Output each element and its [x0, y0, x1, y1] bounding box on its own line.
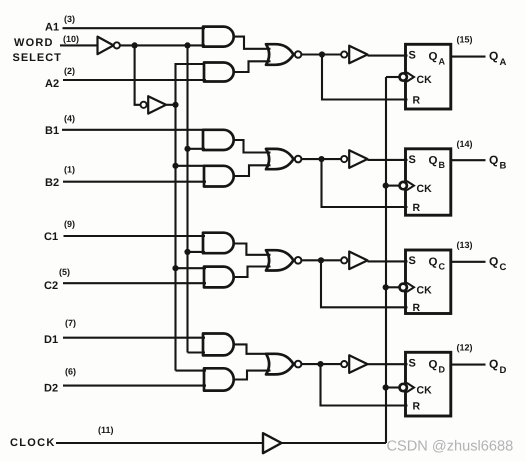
- wire WS-bar rail (vertical): [186, 45, 188, 352]
- clock bubble of FF D: [400, 384, 407, 391]
- svg-text:Q: Q: [489, 357, 498, 371]
- svg-text:Q: Q: [489, 153, 498, 167]
- wire D1 input: [63, 337, 205, 339]
- junction node WS rail: [172, 102, 178, 108]
- wire WORD SELECT input: [60, 44, 98, 46]
- svg-text:(11): (11): [98, 425, 114, 435]
- svg-text:C1: C1: [44, 231, 58, 243]
- svg-text:(10): (10): [63, 34, 79, 44]
- svg-text:Q: Q: [429, 256, 438, 268]
- svg-text:(7): (7): [65, 318, 76, 328]
- svg-text:Q: Q: [489, 254, 498, 268]
- svg-text:R: R: [413, 202, 421, 214]
- svg-text:CK: CK: [417, 183, 433, 195]
- wire B1 input: [62, 129, 205, 131]
- svg-text:D1: D1: [44, 334, 58, 346]
- wire feedback NOR B to R input: [322, 159, 408, 207]
- AND gate A1: [203, 27, 234, 47]
- inverter UB (set input): [341, 156, 347, 162]
- NOR gate C: [266, 250, 294, 270]
- wire QB output: [451, 159, 486, 161]
- NOR gate A: [266, 44, 294, 65]
- wire NOR A output: [301, 53, 341, 55]
- svg-text:(1): (1): [64, 165, 75, 175]
- svg-text:(2): (2): [64, 66, 75, 76]
- wire inverter U2 output: [166, 104, 176, 106]
- clock wedge of FF A: [407, 72, 414, 81]
- clock wedge of FF C: [407, 283, 414, 292]
- svg-text:A: A: [439, 56, 446, 66]
- svg-text:C: C: [500, 262, 507, 273]
- wire WS-bar feed to AND B1: [188, 148, 206, 150]
- wire AND C1 output to NOR C: [233, 244, 270, 255]
- svg-text:CK: CK: [417, 385, 433, 397]
- clock wedge of FF D: [407, 383, 414, 392]
- AND gate B2: [204, 166, 234, 187]
- junction node clock rail at FF D: [383, 384, 389, 390]
- clock wedge of FF B: [407, 181, 414, 190]
- svg-text:A1: A1: [45, 22, 59, 34]
- wire AND D2 output to NOR D: [234, 371, 270, 380]
- inverter UD (set input): [341, 361, 347, 367]
- junction node A (NOR output): [319, 51, 325, 57]
- wire QA output: [451, 56, 486, 58]
- inverter U1 (word select): [98, 37, 114, 55]
- wire clock feed to FF D: [386, 386, 400, 388]
- svg-text:S: S: [409, 255, 416, 267]
- junction node WS-bar to AND B1: [184, 146, 190, 152]
- svg-text:S: S: [409, 50, 416, 62]
- junction node WS to AND C2: [172, 265, 178, 271]
- svg-text:C2: C2: [44, 280, 58, 292]
- NOR gate B: [266, 149, 294, 169]
- clock buffer U3: [263, 433, 282, 453]
- svg-text:(4): (4): [64, 114, 75, 124]
- svg-text:C: C: [439, 262, 446, 272]
- wire clock buffer output: [282, 442, 387, 444]
- wire B2 input: [63, 181, 206, 183]
- wire clock feed to FF C: [386, 286, 400, 288]
- flip-flop latch B: [406, 149, 451, 215]
- svg-text:CK: CK: [417, 285, 433, 297]
- AND gate C2: [204, 267, 234, 288]
- svg-text:(12): (12): [457, 343, 473, 353]
- wire A2 input: [63, 79, 206, 81]
- NOR D output bubble: [295, 361, 302, 368]
- junction node D (NOR output): [317, 361, 323, 367]
- svg-text:D: D: [500, 365, 507, 376]
- wire C1 input: [64, 235, 206, 237]
- svg-text:Q: Q: [489, 49, 498, 63]
- clock bubble of FF A: [400, 73, 407, 80]
- svg-text:B: B: [500, 160, 507, 171]
- svg-text:S: S: [409, 154, 416, 166]
- svg-text:S: S: [409, 358, 416, 370]
- svg-text:Q: Q: [429, 51, 438, 63]
- clock bubble of FF B: [400, 182, 407, 189]
- wire inverter to S input of FF C: [368, 260, 408, 262]
- wire NOR B output: [301, 158, 341, 160]
- wire WS feed to AND B2: [176, 165, 207, 167]
- svg-text:CSDN @zhusl6688: CSDN @zhusl6688: [387, 439, 514, 455]
- junction node B (NOR output): [318, 156, 324, 162]
- AND gate C1: [203, 233, 234, 254]
- svg-text:R: R: [413, 400, 421, 412]
- svg-text:(5): (5): [59, 267, 70, 277]
- AND gate D2: [204, 368, 234, 390]
- wire feedback NOR C to R input: [321, 260, 408, 307]
- NOR A output bubble: [295, 51, 302, 58]
- wire WS rail corner to AND D2: [176, 370, 207, 372]
- NOR C output bubble: [295, 257, 302, 264]
- flip-flop latch D: [406, 352, 451, 416]
- svg-text:R: R: [413, 302, 421, 314]
- svg-text:CLOCK: CLOCK: [10, 437, 56, 449]
- wire feedback NOR D to R input: [321, 364, 408, 405]
- NOR B output bubble: [295, 156, 302, 163]
- svg-text:(3): (3): [64, 14, 75, 24]
- inverter UA (set input): [341, 51, 347, 57]
- svg-text:Q: Q: [429, 359, 438, 371]
- wire inverter to S input of FF D: [368, 363, 408, 365]
- junction node WS-bar branch 1: [132, 42, 138, 48]
- AND gate D1: [203, 334, 234, 356]
- svg-text:A: A: [500, 57, 507, 68]
- svg-text:CK: CK: [417, 74, 433, 86]
- svg-text:A2: A2: [45, 78, 59, 90]
- svg-text:WORD: WORD: [14, 37, 54, 49]
- wire AND B2 output to NOR B: [234, 165, 270, 176]
- wire clock feed to FF A: [386, 76, 400, 78]
- wire NOR D output: [301, 363, 341, 365]
- wire AND A1 output to NOR A: [233, 37, 270, 49]
- wire AND A2 output to NOR A: [234, 61, 270, 72]
- svg-text:(13): (13): [457, 240, 473, 250]
- svg-text:D: D: [439, 364, 446, 374]
- wire D2 input: [63, 385, 206, 387]
- AND gate A2: [204, 63, 234, 82]
- flip-flop latch A: [406, 44, 451, 109]
- wire AND C2 output to NOR C: [234, 267, 270, 278]
- junction node clock rail at FF C: [383, 284, 389, 290]
- wire WS-bar rail corner to AND D1: [188, 351, 206, 353]
- svg-text:D2: D2: [44, 383, 58, 395]
- wire inverter to S input of FF A: [368, 55, 408, 57]
- wire feedback NOR A to R input: [322, 55, 408, 100]
- junction node WS to AND B2: [172, 163, 178, 169]
- wire QC output: [451, 261, 486, 263]
- junction node WS-bar branch 2: [184, 42, 190, 48]
- svg-text:(15): (15): [457, 35, 473, 45]
- wire to inverter U2: [135, 45, 141, 104]
- wire C2 input: [63, 282, 206, 284]
- svg-text:(6): (6): [65, 367, 76, 377]
- wire inverter U1 output to AND gates: [120, 44, 205, 46]
- wire AND B1 output to NOR B: [233, 140, 270, 153]
- wire A1 input: [63, 27, 206, 29]
- wire NOR C output: [301, 259, 341, 261]
- svg-text:B1: B1: [45, 125, 59, 137]
- wire clock feed to FF B: [386, 185, 400, 187]
- svg-text:R: R: [413, 94, 421, 106]
- flip-flop latch C: [406, 250, 451, 314]
- svg-text:Q: Q: [429, 155, 438, 167]
- svg-text:B: B: [439, 160, 446, 170]
- junction node WS-bar to AND C1: [184, 249, 190, 255]
- AND gate B1: [203, 130, 234, 150]
- svg-text:SELECT: SELECT: [13, 52, 62, 64]
- wire QD output: [451, 364, 486, 366]
- wire WS feed to AND C2: [176, 267, 207, 269]
- wire AND D1 output to NOR D: [233, 344, 270, 353]
- svg-text:(14): (14): [457, 139, 473, 149]
- inverter UC (set input): [341, 257, 347, 263]
- wire clock rail (vertical): [385, 77, 387, 443]
- wire WS-bar feed to AND C1: [188, 251, 206, 253]
- clock bubble of FF C: [400, 284, 407, 291]
- NOR gate D: [266, 354, 294, 375]
- wire inverter to S input of FF B: [368, 159, 408, 161]
- junction node clock rail at FF B: [383, 183, 389, 189]
- wire WS rail (vertical): [176, 64, 206, 105]
- svg-text:(9): (9): [64, 219, 75, 229]
- wire CLOCK input: [56, 442, 263, 444]
- junction node C (NOR output): [318, 257, 324, 263]
- svg-text:B2: B2: [45, 177, 59, 189]
- inverter U2 (buffered word select): [141, 102, 147, 108]
